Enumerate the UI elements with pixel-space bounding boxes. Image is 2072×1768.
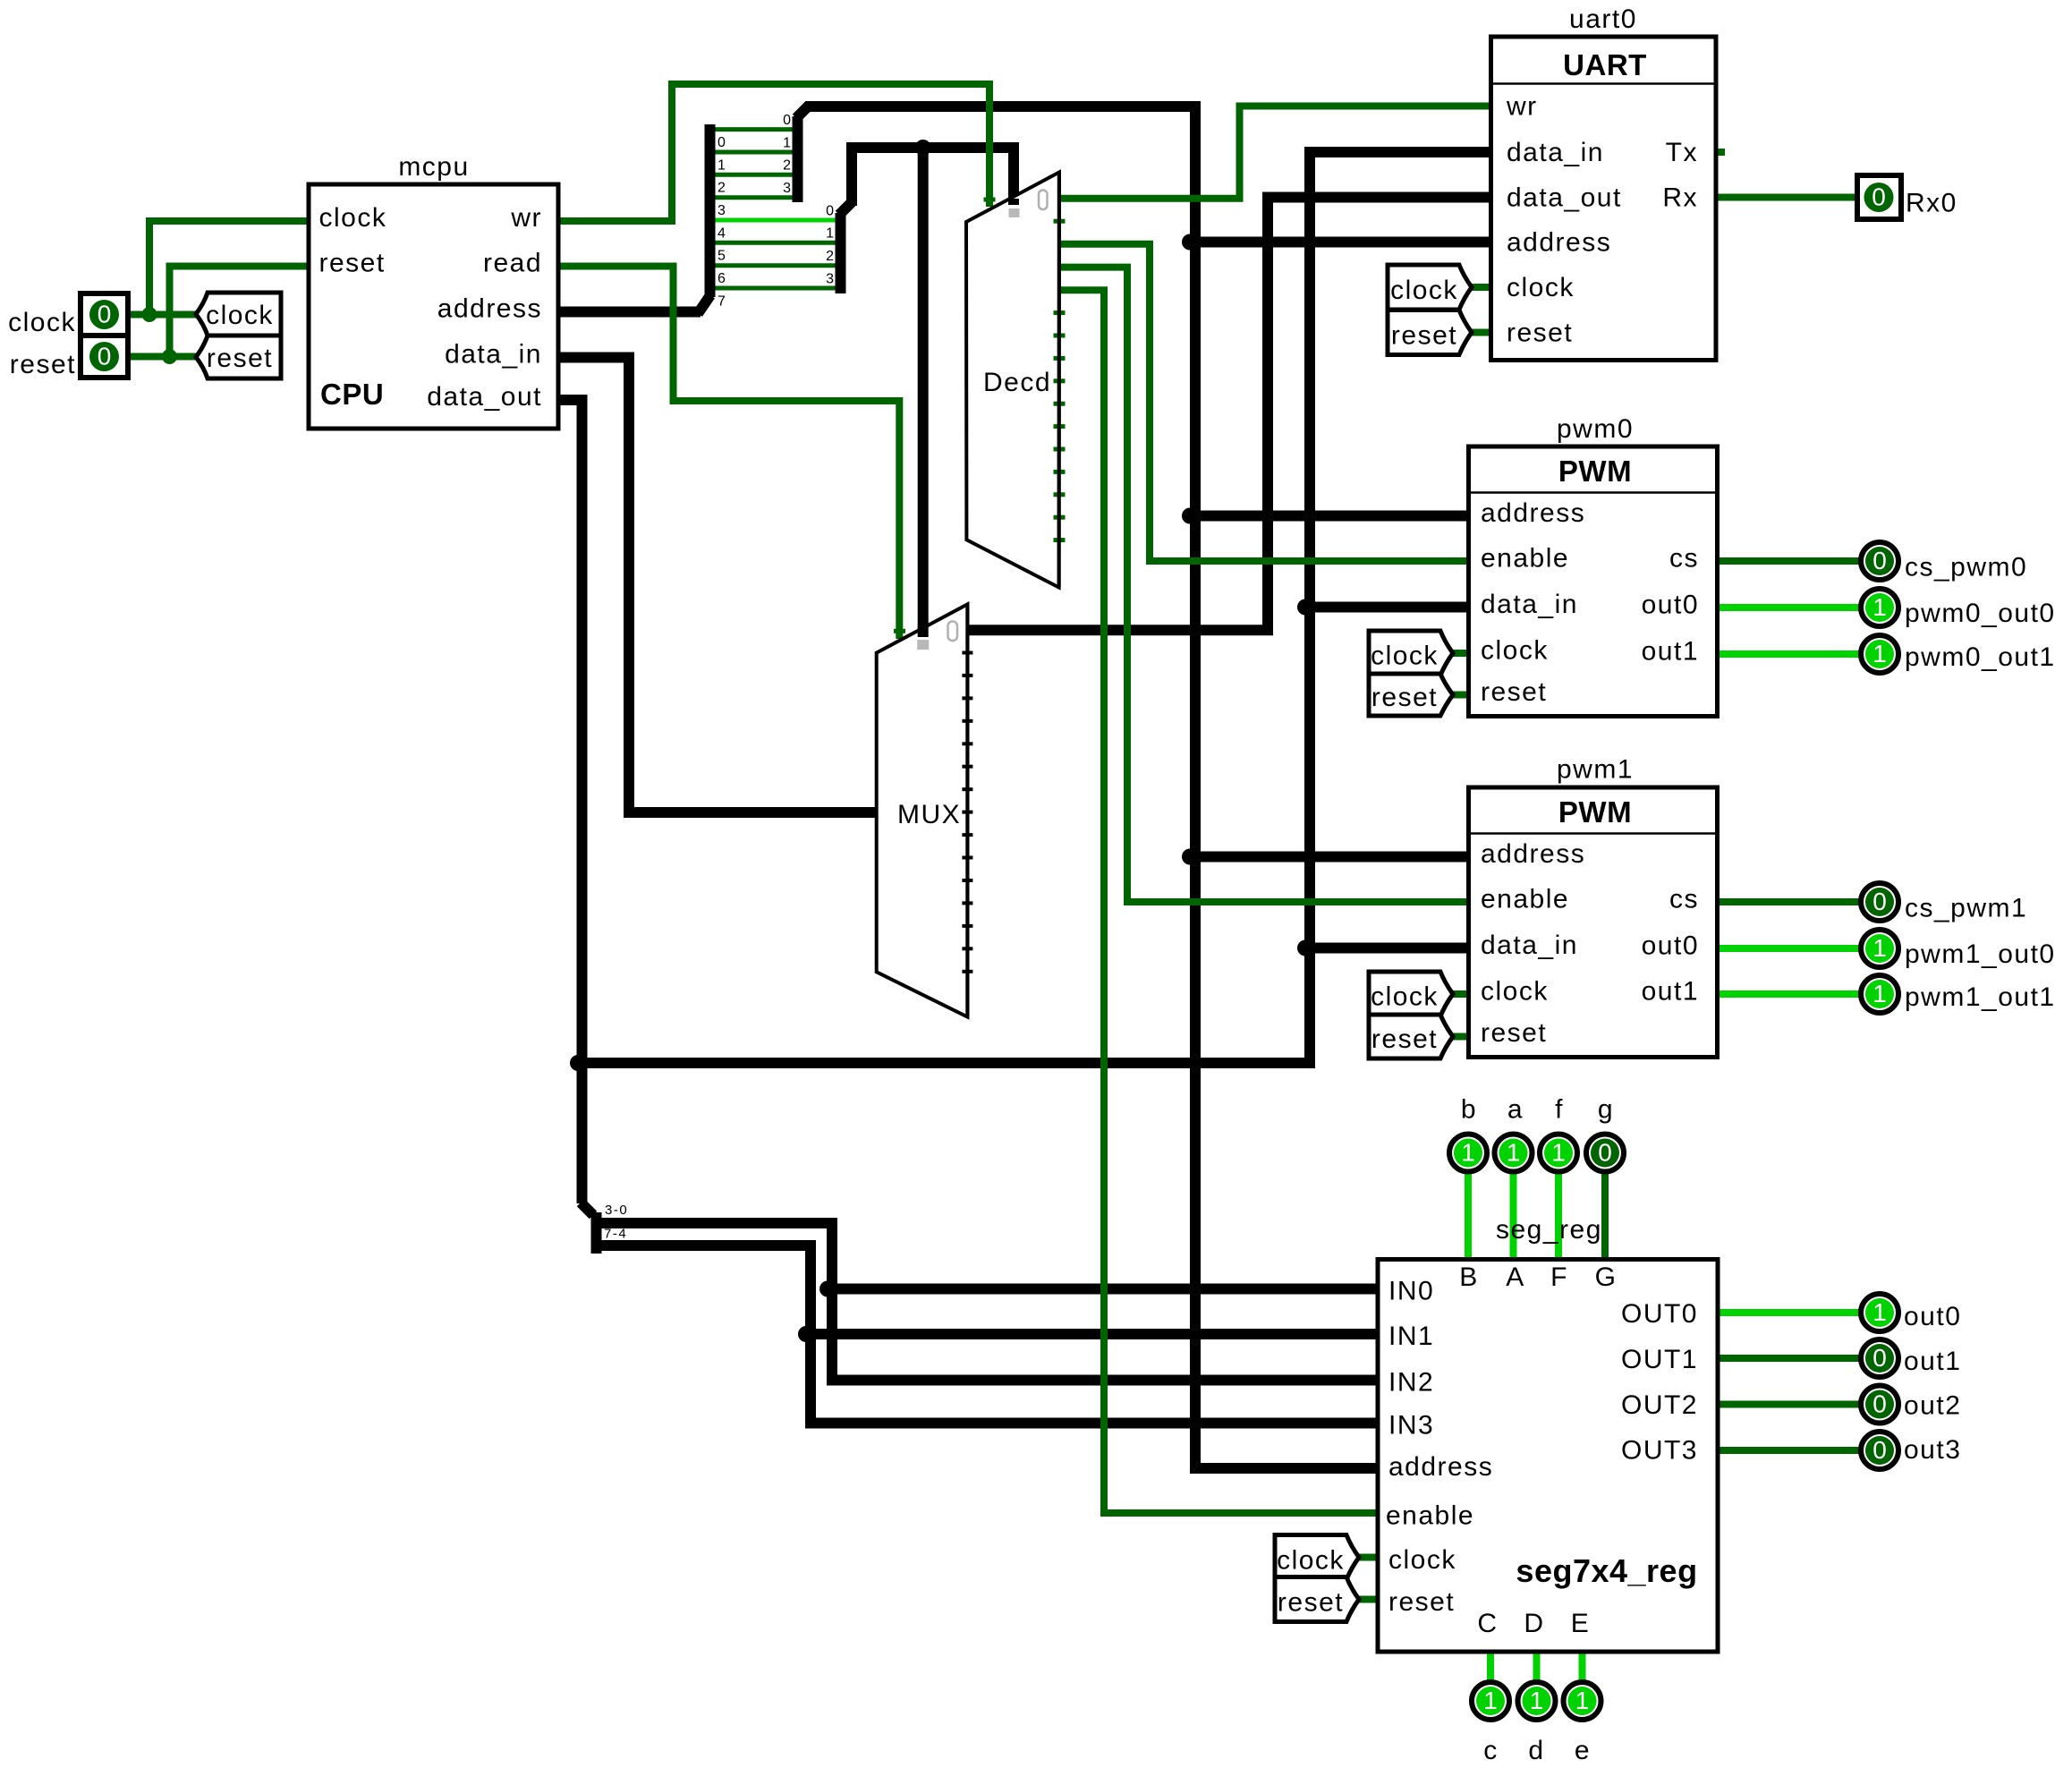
wire branch bus to UART.address bbox=[1187, 237, 1491, 248]
wire decoder select stub inside bbox=[1008, 199, 1019, 205]
svg-text:1: 1 bbox=[826, 226, 834, 242]
wire mux select stub inside bbox=[918, 626, 929, 637]
svg-text:IN0: IN0 bbox=[1388, 1277, 1434, 1306]
mux right edge redraw bbox=[965, 604, 969, 1016]
svg-text:clock: clock bbox=[1481, 977, 1549, 1007]
wire seg7 reset tunnel stub bbox=[1359, 1596, 1378, 1603]
svg-text:3-0: 3-0 bbox=[605, 1203, 628, 1218]
junction address bus / PWM1.address bbox=[1182, 849, 1198, 865]
wire splitter SP3 bus diagonal bbox=[839, 202, 852, 215]
splitter SP4 bar (nibble split) bbox=[591, 1212, 602, 1254]
splitter SP1 leg 0 bbox=[716, 127, 793, 132]
svg-text:data_in: data_in bbox=[445, 340, 542, 370]
svg-text:pwm1_out0: pwm1_out0 bbox=[1905, 939, 2056, 969]
svg-text:clock: clock bbox=[8, 308, 76, 337]
wire UART.Tx stub bbox=[1716, 149, 1725, 156]
BLOCKS bbox=[196, 37, 1718, 1652]
output pin cs_pwm0 bbox=[1861, 542, 1898, 580]
tunnel clock at UART bbox=[1388, 265, 1472, 310]
wire PWM0.cs to pin cs_pwm0 bbox=[1718, 557, 1860, 565]
svg-text:clock: clock bbox=[206, 301, 274, 330]
svg-text:D: D bbox=[1524, 1609, 1544, 1638]
svg-text:F: F bbox=[1550, 1262, 1568, 1292]
svg-text:data_out: data_out bbox=[427, 382, 542, 412]
svg-text:0: 0 bbox=[98, 301, 112, 328]
wire seg7.OUT2 to pin out2 bbox=[1718, 1401, 1859, 1408]
wire seg7.OUT3 to pin out3 bbox=[1718, 1447, 1859, 1454]
svg-text:cs_pwm1: cs_pwm1 bbox=[1905, 894, 2027, 923]
tunnel clock (left, input side) bbox=[196, 293, 281, 336]
junction data_out bus branch bbox=[570, 1055, 586, 1071]
svg-text:clock: clock bbox=[1390, 276, 1458, 305]
svg-text:out1: out1 bbox=[1642, 977, 1699, 1007]
junction data_out[3:0] / IN0 bbox=[819, 1281, 836, 1297]
svg-text:3: 3 bbox=[718, 203, 726, 218]
svg-text:out2: out2 bbox=[1904, 1391, 1961, 1421]
output pin out3 bbox=[1861, 1432, 1898, 1469]
wire seg7.OUT1 to pin out1 bbox=[1718, 1355, 1859, 1362]
wire UART.data_out bus to MUX input0 bbox=[967, 198, 1490, 631]
tunnel reset at seg7 bbox=[1275, 1577, 1359, 1622]
svg-text:0: 0 bbox=[783, 113, 791, 128]
wire UART.Rx to pin Rx0 bbox=[1716, 194, 1857, 201]
tick MUX enable pin bbox=[894, 629, 905, 633]
svg-text:1: 1 bbox=[783, 136, 791, 151]
wire branch select bus to MUX select bbox=[918, 148, 929, 637]
svg-text:c: c bbox=[1483, 1736, 1499, 1765]
wire splitter SP4 diagonal from data_out bus bbox=[581, 1203, 593, 1215]
svg-text:0: 0 bbox=[718, 135, 726, 150]
svg-text:reset: reset bbox=[1391, 321, 1457, 351]
splitter SP1 leg 2 bbox=[716, 173, 793, 177]
splitter SP2 bar (bits 0-3) bbox=[793, 116, 803, 202]
svg-text:E: E bbox=[1571, 1609, 1591, 1638]
wire splitter SP1 bus diagonal bbox=[698, 295, 710, 314]
wire PWM0.out0 to pin pwm0_out0 bbox=[1718, 604, 1860, 611]
block seg7x4_reg (seg_reg) bbox=[1378, 1260, 1718, 1653]
output pin out0 bbox=[1861, 1294, 1898, 1331]
wire splitter SP2 bus diagonal bbox=[796, 106, 809, 118]
svg-text:cs: cs bbox=[1669, 544, 1699, 574]
svg-text:clock: clock bbox=[319, 203, 387, 233]
svg-text:CPU: CPU bbox=[320, 378, 384, 411]
svg-text:wr: wr bbox=[510, 203, 542, 233]
PWM1 header line bbox=[1469, 832, 1718, 835]
input pin reset (square) bbox=[81, 336, 128, 378]
svg-text:Decd: Decd bbox=[983, 368, 1051, 397]
splitter SP1 leg 5 bbox=[716, 241, 836, 245]
wire seg7 clock tunnel stub bbox=[1359, 1554, 1378, 1561]
mux select value 0 (slim outline digit) bbox=[948, 622, 958, 642]
wire PWM1.out1 to pin pwm1_out1 bbox=[1718, 990, 1860, 998]
splitter SP1 leg 1 bbox=[716, 150, 793, 155]
wire address[0:3] bus SP2 to vertical trunk bbox=[805, 106, 1378, 1468]
svg-text:1: 1 bbox=[1483, 1687, 1498, 1714]
svg-text:cs: cs bbox=[1669, 885, 1699, 914]
svg-text:mcpu: mcpu bbox=[398, 152, 469, 182]
svg-text:1: 1 bbox=[1872, 640, 1887, 667]
output pin e bbox=[1564, 1682, 1601, 1720]
svg-text:0: 0 bbox=[1872, 1390, 1887, 1418]
splitter SP1 leg 6 bbox=[716, 263, 836, 268]
decoder output ticks (unconnected) bbox=[1054, 221, 1066, 540]
svg-text:reset: reset bbox=[319, 249, 386, 278]
wire branch to seg7 IN1 bbox=[802, 1329, 1378, 1339]
PINS bbox=[81, 175, 1901, 1720]
junction address bus / PWM0.address bbox=[1182, 508, 1198, 524]
output pin pwm1_out1 bbox=[1861, 975, 1898, 1013]
junction select bus / MUX select bbox=[915, 140, 931, 156]
wire branch bus to PWM1.data_in bbox=[1302, 943, 1469, 954]
svg-text:address: address bbox=[1388, 1452, 1493, 1482]
svg-text:1: 1 bbox=[1551, 1139, 1566, 1167]
tick decoder enable pin bbox=[984, 198, 996, 202]
svg-text:reset: reset bbox=[207, 344, 273, 373]
svg-text:IN1: IN1 bbox=[1388, 1322, 1434, 1351]
svg-text:clock: clock bbox=[1371, 982, 1439, 1012]
svg-text:reset: reset bbox=[1278, 1588, 1344, 1618]
svg-text:clock: clock bbox=[1481, 636, 1549, 666]
svg-text:OUT1: OUT1 bbox=[1621, 1345, 1698, 1374]
block PWM (pwm1) bbox=[1469, 787, 1718, 1058]
wire clock net: input pin to tunnel bbox=[128, 311, 198, 319]
svg-text:OUT0: OUT0 bbox=[1621, 1299, 1698, 1329]
svg-text:out0: out0 bbox=[1642, 591, 1699, 620]
output pin b bbox=[1449, 1135, 1487, 1172]
wire select bus SP3 to decoder select bbox=[852, 148, 1014, 206]
svg-text:pwm1_out1: pwm1_out1 bbox=[1905, 982, 2056, 1012]
svg-text:a: a bbox=[1507, 1095, 1524, 1125]
svg-text:address: address bbox=[437, 294, 542, 324]
wire address bus CPU.address to splitter SP1 bbox=[558, 307, 701, 318]
svg-text:read: read bbox=[483, 249, 542, 278]
tunnel reset at PWM0 bbox=[1369, 674, 1453, 716]
svg-text:0: 0 bbox=[1872, 1436, 1887, 1464]
wire CPU.read to MUX enable bbox=[558, 267, 899, 640]
decoder select marker bbox=[1009, 208, 1020, 217]
svg-text:7: 7 bbox=[718, 294, 726, 310]
svg-text:clock: clock bbox=[1371, 642, 1439, 671]
wire branch bus to PWM0.data_in bbox=[1302, 602, 1469, 613]
svg-text:d: d bbox=[1528, 1736, 1544, 1765]
svg-text:enable: enable bbox=[1386, 1501, 1474, 1531]
splitter SP3 bar (bits 4-7) bbox=[836, 213, 846, 293]
wire branch to seg7 IN0 bbox=[824, 1284, 1378, 1295]
svg-text:out1: out1 bbox=[1904, 1347, 1961, 1376]
svg-text:0: 0 bbox=[826, 204, 834, 219]
svg-text:reset: reset bbox=[1371, 1024, 1438, 1054]
splitter SP2 bit labels bbox=[783, 113, 791, 196]
svg-text:0: 0 bbox=[1598, 1139, 1612, 1167]
svg-text:1: 1 bbox=[1461, 1139, 1475, 1167]
splitter SP1 bit labels bbox=[718, 135, 726, 310]
svg-text:0: 0 bbox=[98, 343, 112, 370]
svg-text:pwm0_out0: pwm0_out0 bbox=[1905, 599, 2056, 628]
svg-text:reset: reset bbox=[1507, 319, 1573, 348]
tunnel reset (left, input side) bbox=[196, 336, 281, 378]
svg-text:clock: clock bbox=[1277, 1546, 1345, 1576]
svg-text:clock: clock bbox=[1507, 273, 1575, 302]
svg-text:f: f bbox=[1555, 1095, 1564, 1125]
svg-text:pwm0: pwm0 bbox=[1557, 414, 1634, 444]
svg-text:PWM: PWM bbox=[1558, 795, 1632, 829]
wire PWM1.cs to pin cs_pwm1 bbox=[1718, 898, 1860, 905]
svg-text:address: address bbox=[1481, 839, 1585, 869]
tunnel reset at PWM1 bbox=[1369, 1015, 1453, 1058]
svg-text:OUT2: OUT2 bbox=[1621, 1390, 1698, 1420]
output pin out2 bbox=[1861, 1386, 1898, 1424]
wire PWM0.out1 to pin pwm0_out1 bbox=[1718, 650, 1860, 658]
splitter SP1 leg 3 bbox=[716, 195, 793, 200]
svg-text:out0: out0 bbox=[1642, 931, 1699, 961]
svg-text:0: 0 bbox=[1872, 1344, 1887, 1372]
svg-text:4: 4 bbox=[718, 226, 726, 242]
svg-text:out3: out3 bbox=[1904, 1435, 1961, 1465]
wire decoder out3 to PWM1.enable bbox=[1059, 268, 1469, 902]
svg-text:UART: UART bbox=[1563, 48, 1647, 81]
decoder right edge redraw bbox=[1057, 173, 1061, 588]
wire data_out[3:0] leg to vertical bbox=[597, 1223, 1379, 1381]
svg-text:reset: reset bbox=[10, 350, 76, 379]
junction reset net bbox=[162, 349, 177, 364]
output pin a bbox=[1495, 1135, 1533, 1172]
svg-text:data_in: data_in bbox=[1481, 931, 1578, 960]
tunnel clock at seg7 bbox=[1275, 1535, 1359, 1580]
svg-text:seg_reg: seg_reg bbox=[1496, 1215, 1602, 1245]
svg-text:OUT3: OUT3 bbox=[1621, 1436, 1698, 1466]
wire decoder out2 to PWM0.enable bbox=[1059, 244, 1469, 561]
svg-text:3: 3 bbox=[783, 181, 791, 196]
svg-text:data_in: data_in bbox=[1507, 138, 1604, 167]
input pin clock (square) bbox=[81, 293, 128, 336]
wire PWM1 reset tunnel stub bbox=[1453, 1033, 1469, 1041]
output pin c bbox=[1472, 1682, 1509, 1720]
svg-text:e: e bbox=[1575, 1736, 1591, 1765]
wire decoder out4 to seg7 enable bbox=[1059, 290, 1378, 1513]
svg-text:clock: clock bbox=[1388, 1545, 1456, 1575]
svg-text:3: 3 bbox=[826, 272, 834, 287]
svg-text:0: 0 bbox=[1872, 888, 1887, 915]
svg-text:1: 1 bbox=[1872, 1298, 1887, 1326]
mux select marker bbox=[917, 640, 929, 650]
svg-text:out1: out1 bbox=[1642, 637, 1699, 667]
svg-text:1: 1 bbox=[1530, 1687, 1544, 1714]
wire PWM1.out0 to pin pwm1_out0 bbox=[1718, 945, 1860, 952]
mux MUX body bbox=[877, 604, 968, 1016]
decoder Decd body bbox=[966, 173, 1059, 588]
svg-text:2: 2 bbox=[718, 181, 726, 196]
svg-text:7-4: 7-4 bbox=[604, 1227, 627, 1242]
svg-text:Rx0: Rx0 bbox=[1906, 189, 1957, 218]
output pin cs_pwm1 bbox=[1861, 883, 1898, 921]
wire PWM0 reset tunnel stub bbox=[1453, 692, 1469, 699]
svg-text:Tx: Tx bbox=[1666, 138, 1698, 167]
wire pin a to seg7.A bbox=[1510, 1172, 1517, 1260]
input pin Rx0 (square) bbox=[1857, 175, 1901, 219]
svg-text:5: 5 bbox=[718, 249, 726, 264]
svg-text:1: 1 bbox=[1872, 980, 1887, 1007]
svg-text:enable: enable bbox=[1481, 544, 1569, 574]
wire UART reset tunnel stub bbox=[1472, 329, 1491, 336]
svg-text:g: g bbox=[1598, 1095, 1614, 1125]
tunnel clock at PWM1 bbox=[1369, 972, 1453, 1016]
output pin f bbox=[1540, 1135, 1577, 1172]
svg-text:2: 2 bbox=[783, 158, 791, 174]
tunnel clock at PWM0 bbox=[1369, 631, 1453, 676]
wire pin b to seg7.B bbox=[1465, 1172, 1472, 1260]
svg-text:PWM: PWM bbox=[1558, 455, 1632, 488]
svg-text:1: 1 bbox=[718, 158, 726, 174]
output pin g bbox=[1586, 1135, 1624, 1172]
svg-text:seg7x4_reg: seg7x4_reg bbox=[1516, 1552, 1697, 1589]
junction data bus / PWM0.data_in bbox=[1297, 599, 1313, 616]
svg-text:uart0: uart0 bbox=[1569, 4, 1637, 34]
PWM0 header line bbox=[1469, 491, 1718, 494]
WIRES-GREEN bbox=[128, 84, 1859, 1682]
block CPU (mcpu) bbox=[309, 184, 558, 429]
svg-text:IN3: IN3 bbox=[1388, 1411, 1434, 1441]
wire UART clock tunnel stub bbox=[1472, 284, 1491, 291]
junction data_out[7:4] / IN1 bbox=[798, 1326, 814, 1342]
svg-text:pwm0_out1: pwm0_out1 bbox=[1905, 642, 2056, 672]
junction clock net bbox=[142, 307, 157, 322]
svg-text:address: address bbox=[1481, 498, 1585, 528]
decoder select value 0 (slim outline digit) bbox=[1039, 191, 1048, 210]
splitter SP1 leg 7 bbox=[716, 286, 836, 291]
wire seg7.C to pin c bbox=[1487, 1652, 1494, 1682]
svg-text:1: 1 bbox=[1575, 1687, 1590, 1714]
svg-text:enable: enable bbox=[1481, 885, 1569, 914]
svg-text:MUX: MUX bbox=[897, 800, 961, 829]
wire branch bus to PWM0.address bbox=[1187, 511, 1469, 522]
block PWM (pwm0) bbox=[1469, 446, 1718, 717]
wire clock riser to CPU.clock bbox=[149, 221, 309, 315]
wire data_out bus from CPU.data_out down bbox=[558, 400, 582, 1203]
WIRES-BUSES bbox=[558, 106, 1491, 1468]
splitter SP1 bar (8-bit fanout) bbox=[705, 124, 716, 297]
output pin out1 bbox=[1861, 1339, 1898, 1377]
svg-text:G: G bbox=[1595, 1262, 1618, 1292]
svg-text:reset: reset bbox=[1371, 683, 1438, 712]
junction data bus / PWM1.data_in bbox=[1297, 940, 1313, 956]
svg-text:reset: reset bbox=[1481, 1018, 1547, 1048]
svg-text:wr: wr bbox=[1506, 92, 1538, 122]
svg-text:Rx: Rx bbox=[1662, 183, 1698, 213]
svg-text:1: 1 bbox=[1507, 1139, 1521, 1167]
svg-text:address: address bbox=[1507, 228, 1611, 258]
wire data_out[7:4] leg to vertical bbox=[597, 1245, 1379, 1424]
output pin pwm0_out1 bbox=[1861, 635, 1898, 673]
wire CPU.wr to decoder enable bbox=[558, 84, 989, 221]
splitter SP4 range labels bbox=[604, 1203, 628, 1242]
svg-text:reset: reset bbox=[1481, 677, 1547, 707]
wire seg7.OUT0 to pin out0 bbox=[1718, 1309, 1859, 1316]
junction address bus / UART.address bbox=[1182, 234, 1198, 251]
svg-text:1: 1 bbox=[1872, 593, 1887, 621]
svg-text:2: 2 bbox=[826, 249, 834, 264]
wire data_out bus branch to peripheral data_in trunk bbox=[582, 152, 1491, 1063]
svg-text:6: 6 bbox=[718, 271, 726, 286]
block UART (uart0) bbox=[1491, 37, 1717, 361]
svg-text:b: b bbox=[1461, 1095, 1477, 1125]
mux input ticks (unconnected) bbox=[962, 653, 972, 972]
svg-text:1: 1 bbox=[1872, 934, 1887, 962]
tunnel reset at UART bbox=[1388, 310, 1472, 355]
wire seg7.D to pin d bbox=[1533, 1652, 1541, 1682]
output pin pwm0_out0 bbox=[1861, 589, 1898, 626]
wire PWM0 clock tunnel stub bbox=[1453, 650, 1469, 657]
svg-text:0: 0 bbox=[1872, 183, 1886, 211]
output pin d bbox=[1518, 1682, 1556, 1720]
svg-text:cs_pwm0: cs_pwm0 bbox=[1905, 553, 2027, 582]
wire branch bus to PWM1.address bbox=[1187, 852, 1469, 863]
svg-text:A: A bbox=[1506, 1262, 1525, 1292]
UART header line bbox=[1491, 82, 1717, 85]
svg-text:reset: reset bbox=[1388, 1587, 1455, 1617]
output pin pwm1_out0 bbox=[1861, 930, 1898, 967]
splitter SP1 leg 4 (value 1) bbox=[716, 218, 836, 223]
svg-text:0: 0 bbox=[1872, 547, 1887, 574]
wire reset net: input pin to tunnel bbox=[128, 353, 198, 361]
svg-text:pwm1: pwm1 bbox=[1557, 755, 1634, 785]
svg-text:B: B bbox=[1459, 1262, 1479, 1292]
splitter SP3 bit labels bbox=[826, 204, 834, 287]
wire PWM1 clock tunnel stub bbox=[1453, 990, 1469, 998]
svg-text:out0: out0 bbox=[1904, 1302, 1961, 1331]
svg-text:IN2: IN2 bbox=[1388, 1368, 1434, 1398]
svg-text:data_in: data_in bbox=[1481, 590, 1578, 619]
wire pin g to seg7.G bbox=[1601, 1172, 1609, 1260]
wire pin f to seg7.F bbox=[1555, 1172, 1562, 1260]
svg-text:C: C bbox=[1477, 1609, 1498, 1638]
wire seg7.E to pin e bbox=[1579, 1652, 1586, 1682]
wire reset riser to CPU.reset bbox=[170, 267, 310, 357]
svg-text:data_out: data_out bbox=[1507, 183, 1622, 213]
wire decoder out0 to UART.wr bbox=[1059, 106, 1491, 199]
wire data_in bus CPU.data_in to MUX output bbox=[558, 358, 879, 813]
